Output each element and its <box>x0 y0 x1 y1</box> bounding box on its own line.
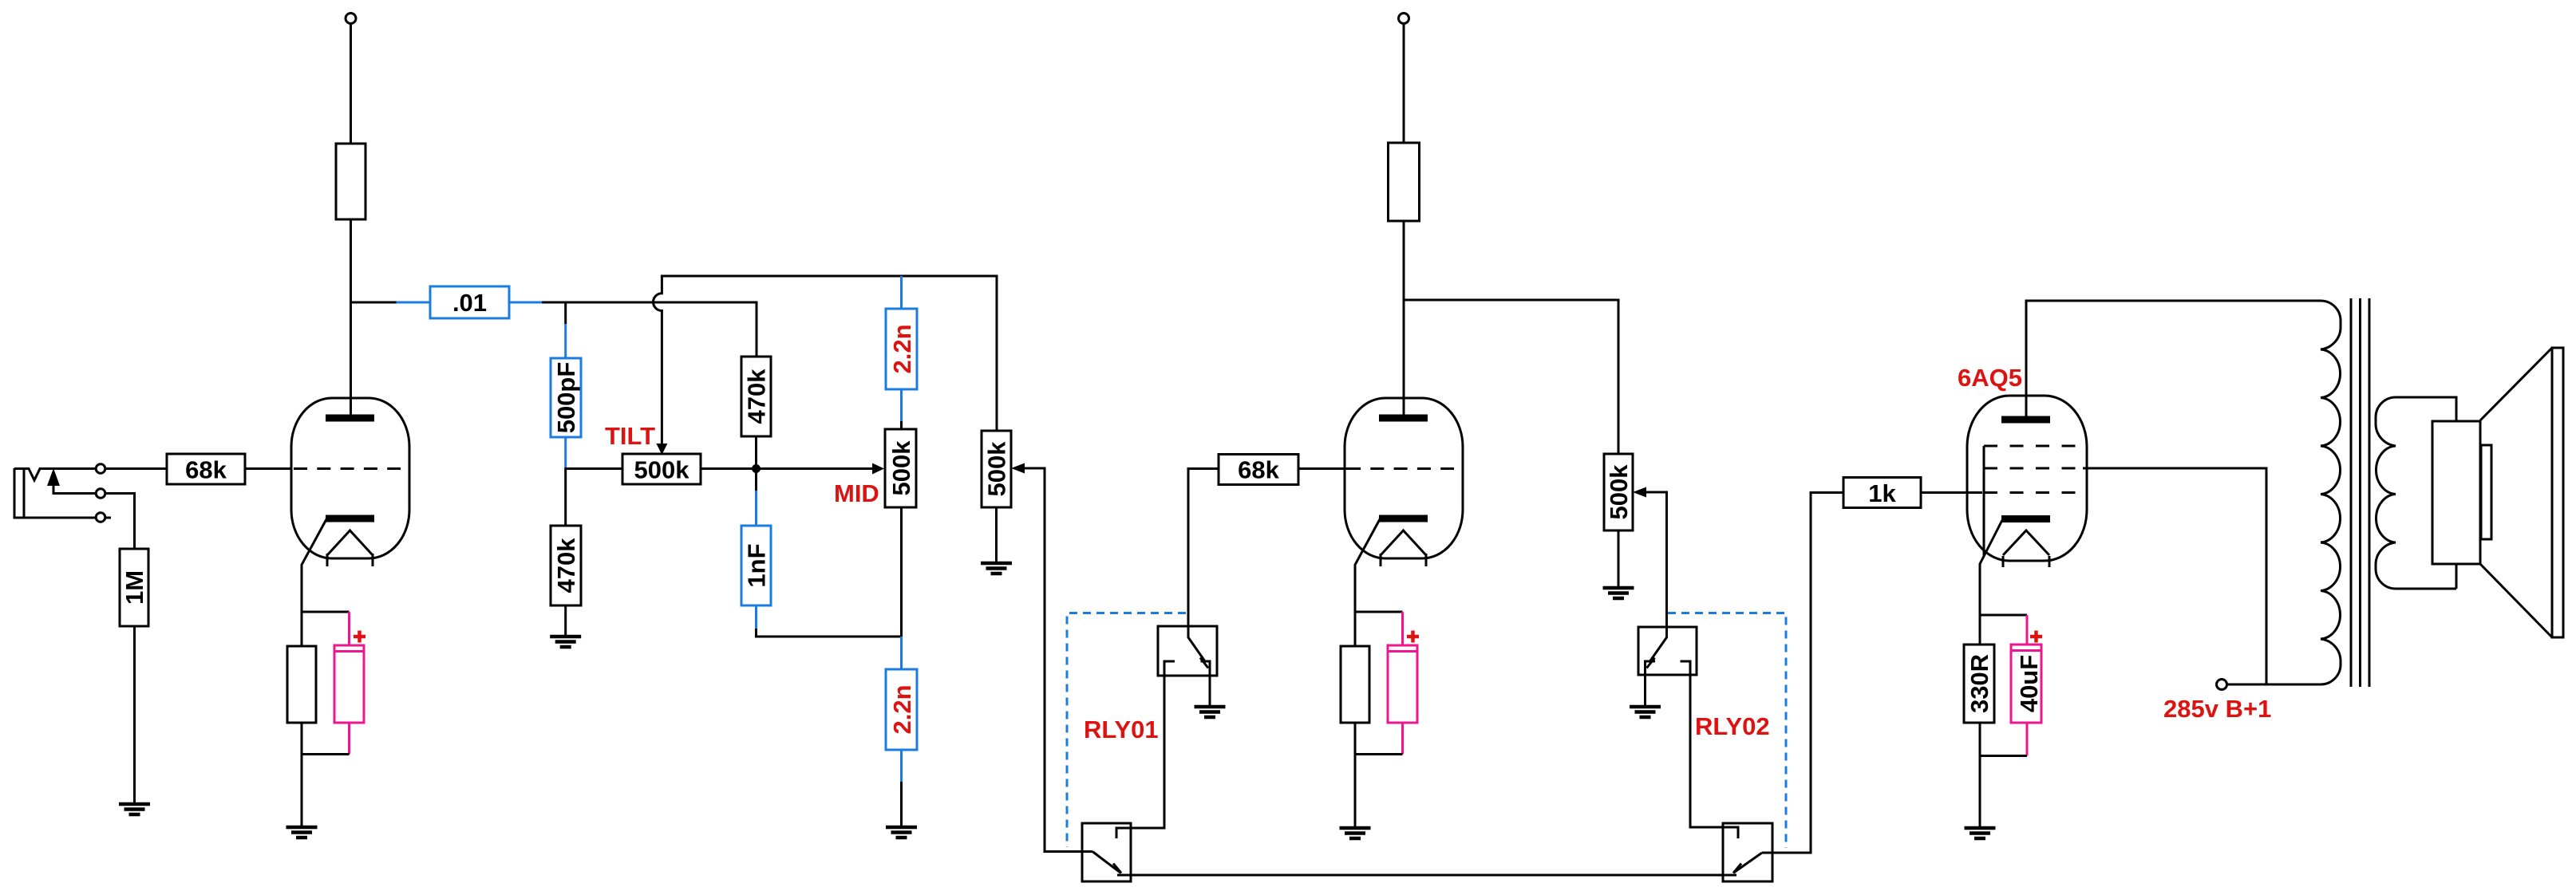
V3 cathode bar <box>2001 515 2050 522</box>
wire: 1M to ground <box>133 626 136 804</box>
ground (V1 cathode) <box>286 827 318 838</box>
wire: 40uF bottom lead (pink) <box>2026 723 2029 756</box>
ground (RLY02 A) <box>1630 707 1661 717</box>
wire: MID pot bottom <box>900 507 903 637</box>
wire: terminal to plate resistor <box>350 24 352 144</box>
potentiometer TILT 500k <box>622 454 701 484</box>
speaker cone <box>2480 348 2552 637</box>
speaker magnet <box>2481 445 2491 539</box>
resistor Rk1 <box>287 646 316 723</box>
svg-text:1nF: 1nF <box>743 543 771 587</box>
wire: junction to 1nF (blue) <box>755 491 757 526</box>
wire: RLY01 A left contact to switch B <box>1116 676 1164 838</box>
capacitor 40uF top lead (pink) <box>2026 615 2029 645</box>
ground (V2 cathode) <box>1340 828 1371 838</box>
svg-text:68k: 68k <box>185 456 227 484</box>
ground (pot2) <box>1603 588 1634 598</box>
ground (pot1) <box>981 563 1012 574</box>
V1 heater <box>327 530 373 566</box>
capacitor Ck2 top lead (pink) <box>1401 612 1404 645</box>
resistor 1k <box>1843 478 1921 508</box>
resistor 1M <box>120 549 148 626</box>
V2 cathode lead <box>1355 519 1380 646</box>
V2 cathode bar <box>1379 515 1428 522</box>
wire: jack tip contact to 68k (with switch notch) <box>14 469 167 481</box>
wire: terminal to plate resistor V2 <box>1403 24 1405 144</box>
wire: 2.2n lower to ground (blue then black) <box>900 750 903 782</box>
wire: secondary to speaker <box>2396 397 2456 589</box>
wire: V3 cathode RC top branch <box>1980 614 2027 617</box>
wire: blue leads of coupling cap .01 <box>397 302 543 304</box>
capacitor Ck1 electrolytic (pink) <box>334 645 364 723</box>
wire: 2.2n upper to MID pot (blue) <box>900 389 903 421</box>
resistor 470k lower <box>551 526 581 605</box>
wire: V3 screen to B+ node <box>2083 468 2266 684</box>
wire: plate resistor to V2 plate with branch to pot2 <box>1404 221 1618 454</box>
svg-text:470k: 470k <box>743 369 771 424</box>
V2 heater <box>1381 530 1426 566</box>
V2 grid (dashed) <box>1347 467 1454 470</box>
svg-text:MID: MID <box>834 479 879 507</box>
potentiometer 500k volume 2 <box>1604 454 1633 530</box>
junction dot <box>752 464 761 473</box>
svg-text:RLY01: RLY01 <box>1084 716 1159 743</box>
V1 grid (dashed) <box>294 467 401 470</box>
ground (2.2n lower) <box>886 827 917 838</box>
wire: 500pF to TILT junction (blue) <box>564 437 567 467</box>
wire: V1 cathode RC bottom to ground <box>302 723 350 827</box>
wire: V3 plate to output transformer <box>2026 301 2321 416</box>
jack switch arrow <box>47 468 60 486</box>
V1 plate bar <box>326 415 374 422</box>
svg-text:500pF: 500pF <box>552 362 580 434</box>
wire: .01 to tone network <box>542 302 757 357</box>
V1 cathode lead <box>302 519 326 646</box>
wire: jack ring contact to 1M <box>53 484 135 549</box>
speaker voice coil <box>2432 421 2480 564</box>
wire: TILT output to MID wiper <box>701 467 875 470</box>
wire: RLY01 A right contact to ground <box>1209 676 1211 707</box>
wire: 470k upper bottom to junction <box>755 436 757 491</box>
relay RLY01 switch B (bottom) <box>1082 823 1131 881</box>
TILT wiper arrowhead <box>656 444 667 455</box>
wire: TILT wiper with hop over AC line, top rail to pot1 <box>654 276 997 444</box>
relay RLY01 dashed outline (blue) <box>1067 613 1186 848</box>
wire: pot2 wiper to RLY02 A common <box>1646 492 1667 627</box>
triode V1 envelope <box>291 398 409 558</box>
V3 cathode lead <box>1980 520 2002 645</box>
svg-text:2.2n: 2.2n <box>888 684 916 734</box>
output transformer primary winding <box>2226 301 2341 684</box>
output transformer secondary winding <box>2376 397 2456 589</box>
svg-text:6AQ5: 6AQ5 <box>1958 364 2022 392</box>
input jack J1 body <box>14 468 111 518</box>
polarity + (red) <box>1407 631 1419 643</box>
wire: relay bus RLY01 B to RLY02 B <box>1117 874 1736 877</box>
svg-text:1k: 1k <box>1868 479 1896 507</box>
V3 grid 1 (dashed) <box>1984 491 2076 494</box>
transformer core <box>2351 298 2369 687</box>
pot1 wiper arrowhead <box>1011 463 1025 474</box>
relay RLY02 switch A (top) <box>1638 627 1697 675</box>
capacitor 40uF electrolytic (pink) <box>2011 645 2041 723</box>
MID wiper arrowhead <box>872 463 884 475</box>
wire: 68k#2 left to RLY01 A common <box>1188 469 1219 627</box>
V3 grid 3 suppressor (dashed) with cathode tie <box>1984 445 2076 447</box>
svg-text:1M: 1M <box>121 570 148 605</box>
svg-text:330R: 330R <box>1966 654 1993 713</box>
V3 grid 2 screen (dashed) <box>1984 467 2076 470</box>
capacitor Ck2 electrolytic (pink) <box>1388 645 1417 723</box>
wire: V2 cathode RC top branch <box>1355 611 1403 613</box>
capacitor 2.2n upper (blue box, red label) <box>886 309 917 389</box>
svg-text:500k: 500k <box>887 440 915 496</box>
wire: RLY02 A left contact to ground <box>1644 675 1646 707</box>
potentiometer MID 500k <box>885 429 916 507</box>
resistor 68k (input) <box>167 454 245 484</box>
svg-text:.01: .01 <box>452 289 487 317</box>
resistor Rk2 <box>1341 646 1369 723</box>
wire: RLY02 A right contact to switch B <box>1690 675 1738 838</box>
svg-text:500k: 500k <box>1605 464 1633 520</box>
capacitor 2.2n lower (blue box, red label) <box>886 669 917 750</box>
supply terminal V1 <box>346 14 356 24</box>
relay RLY01 switch A (top) <box>1158 626 1217 676</box>
svg-text:500k: 500k <box>983 441 1011 497</box>
svg-text:68k: 68k <box>1238 456 1279 484</box>
wire: V1 cathode RC top branch <box>302 611 350 613</box>
wire: Ck2 bottom lead (pink) <box>1401 723 1404 755</box>
input terminal ring (sleeve) <box>96 513 105 522</box>
V3 plate bar <box>2001 416 2050 424</box>
svg-text:470k: 470k <box>552 538 580 593</box>
pot2 wiper arrowhead <box>1633 487 1646 498</box>
capacitor .01 (blue box) <box>430 286 509 318</box>
wire: 68k to V1 grid <box>245 467 292 470</box>
wire: V3 cathode RC bottom to ground <box>1980 723 2027 828</box>
V3 heater <box>2003 530 2049 567</box>
V1 cathode bar <box>326 515 374 522</box>
wire: to 2.2n lower (blue) <box>900 637 903 669</box>
svg-text:500k: 500k <box>634 456 690 484</box>
speaker frame <box>2552 348 2563 637</box>
ground (V3 cathode) <box>1965 828 1996 838</box>
wire: 1k to V3 grid <box>1921 491 1982 494</box>
ground (RLY01 A) <box>1195 707 1226 717</box>
plate resistor V1 <box>336 144 365 219</box>
input terminal ring (tip) <box>96 464 105 474</box>
wire: RLY02 B to 1k <box>1762 493 1843 854</box>
wire: Ck1 bottom lead (pink) <box>348 723 350 755</box>
pentode V3 6AQ5 envelope <box>1967 396 2087 561</box>
svg-text:40uF: 40uF <box>2015 655 2043 712</box>
svg-text:TILT: TILT <box>605 422 655 450</box>
resistor 330R <box>1964 645 1994 723</box>
plate resistor V2 <box>1389 143 1420 221</box>
wire: pot1 wiper to RLY01 switch B <box>1024 468 1092 852</box>
wire: B+ to primary bottom <box>2226 684 2229 686</box>
wire: drop to 500pF (blue) <box>564 324 567 358</box>
wire: pot2 bottom to ground <box>1618 530 1620 588</box>
wire: pot1 bottom to ground <box>995 507 998 563</box>
wire: junction to TILT pot and 470k lower <box>566 467 622 526</box>
input terminal ring (ring) <box>96 489 105 499</box>
svg-text:RLY02: RLY02 <box>1695 712 1770 740</box>
resistor 470k upper <box>741 357 771 436</box>
relay RLY02 switch B (bottom) <box>1723 823 1772 881</box>
wire: 68k to V2 grid <box>1298 467 1347 470</box>
B+ terminal <box>2217 680 2227 690</box>
polarity + (red) <box>354 631 365 643</box>
capacitor 1nF (blue box) <box>741 526 771 605</box>
potentiometer 500k volume 1 <box>982 431 1011 507</box>
ground (470k lower) <box>550 637 581 647</box>
relay RLY02 dashed outline (blue) <box>1668 613 1786 849</box>
wire: plate resistor to V1 plate with coupling branch <box>351 219 397 415</box>
wire: top rail to 2.2n upper (blue) <box>900 276 903 309</box>
supply terminal V2 <box>1399 14 1409 24</box>
wire: 1nF bottom to MID bottom <box>757 629 902 637</box>
wire: 1nF bottom (blue) <box>755 605 757 629</box>
capacitor Ck1 top lead (pink) <box>348 612 350 645</box>
triode V2 envelope <box>1345 398 1463 558</box>
capacitor 500pF (blue box) <box>551 358 581 437</box>
svg-text:285v B+1: 285v B+1 <box>2163 695 2271 723</box>
wire: V2 cathode RC bottom to ground <box>1355 723 1403 828</box>
V2 plate bar <box>1379 415 1428 422</box>
polarity + (red) <box>2030 631 2042 643</box>
svg-text:2.2n: 2.2n <box>888 324 916 373</box>
wire: 470k lower to ground <box>564 605 567 637</box>
resistor 68k (stage 2) <box>1219 455 1298 485</box>
ground (input) <box>119 804 150 814</box>
